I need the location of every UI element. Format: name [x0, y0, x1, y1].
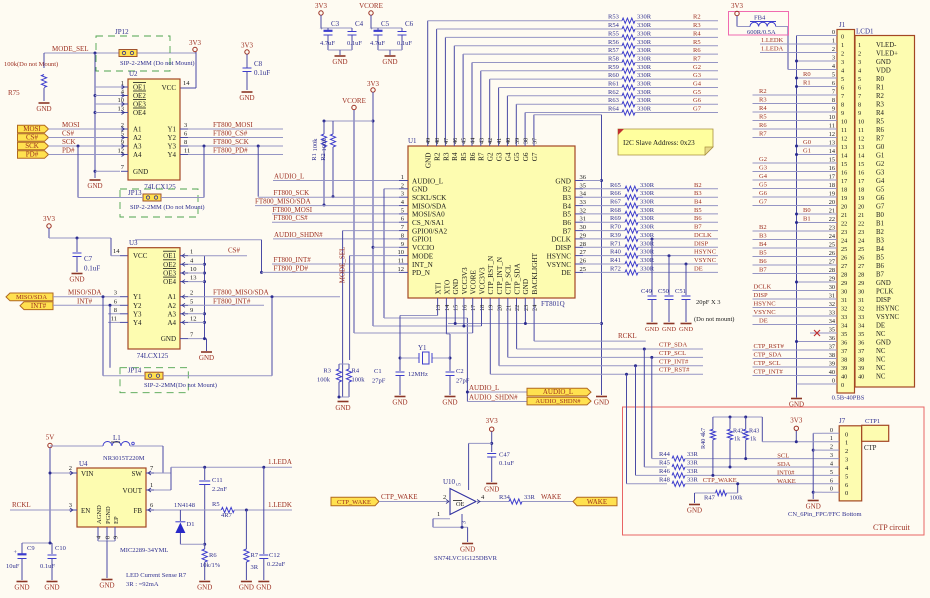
svg-text:HSYNC: HSYNC	[754, 301, 776, 308]
svg-text:R70: R70	[610, 224, 621, 231]
svg-text:R1: R1	[876, 85, 884, 92]
svg-text:36: 36	[580, 174, 587, 181]
svg-text:20: 20	[497, 305, 504, 311]
svg-text:47: 47	[443, 138, 450, 144]
svg-text:CTP_RST#: CTP_RST#	[659, 367, 690, 374]
svg-text:MODE_SEL: MODE_SEL	[52, 45, 89, 53]
svg-text:37: 37	[532, 138, 539, 144]
svg-text:SCKL/SCK: SCKL/SCK	[412, 194, 447, 202]
svg-text:MODE_SEL: MODE_SEL	[339, 247, 347, 284]
svg-text:GND: GND	[335, 404, 350, 412]
svg-text:14: 14	[841, 153, 848, 160]
svg-text:G2: G2	[693, 64, 701, 71]
svg-text:CTP_WAKE: CTP_WAKE	[703, 477, 737, 484]
svg-text:A1: A1	[133, 126, 142, 134]
svg-text:11: 11	[841, 127, 847, 134]
svg-text:OE3: OE3	[133, 101, 146, 109]
svg-text:11: 11	[858, 127, 864, 134]
svg-text:GND: GND	[14, 584, 29, 592]
svg-text:7: 7	[841, 93, 844, 100]
svg-text:27pF: 27pF	[456, 378, 470, 385]
svg-text:G6: G6	[522, 152, 530, 161]
svg-text:42: 42	[487, 138, 494, 144]
svg-text:9: 9	[121, 139, 124, 146]
svg-text:B3: B3	[876, 238, 885, 245]
svg-text:1: 1	[401, 174, 404, 181]
svg-text:330R: 330R	[637, 30, 652, 37]
svg-text:28: 28	[858, 272, 864, 279]
svg-text:AUDIO_L: AUDIO_L	[274, 173, 304, 181]
svg-text:19: 19	[488, 305, 495, 311]
svg-text:33R: 33R	[687, 460, 699, 467]
svg-text:330R: 330R	[637, 64, 652, 71]
svg-text:R4: R4	[451, 152, 459, 161]
svg-text:OE1: OE1	[163, 252, 176, 260]
svg-text:3V3: 3V3	[43, 215, 56, 223]
svg-text:6: 6	[184, 131, 188, 138]
svg-text:23: 23	[858, 229, 864, 236]
svg-text:R7: R7	[876, 136, 885, 143]
svg-text:FT800_PD#: FT800_PD#	[273, 264, 308, 272]
svg-text:2: 2	[832, 46, 835, 53]
svg-text:DISP: DISP	[694, 240, 708, 247]
svg-text:21: 21	[858, 212, 864, 219]
svg-text:33: 33	[841, 314, 847, 321]
svg-text:8: 8	[114, 307, 117, 314]
svg-text:D1: D1	[187, 521, 195, 528]
svg-text:G3: G3	[693, 72, 701, 79]
svg-text:28: 28	[580, 241, 587, 248]
svg-text:330R: 330R	[640, 240, 655, 247]
svg-text:GND: GND	[806, 503, 821, 511]
svg-text:GND: GND	[239, 584, 254, 592]
svg-text:G1: G1	[876, 153, 884, 160]
svg-text:VSYNC: VSYNC	[754, 309, 776, 316]
svg-text:EP: EP	[113, 516, 120, 524]
svg-text:8: 8	[105, 536, 112, 539]
svg-text:U1: U1	[408, 137, 417, 145]
svg-text:VOUT: VOUT	[123, 487, 143, 495]
svg-text:10: 10	[829, 114, 835, 121]
svg-text:46: 46	[452, 138, 459, 144]
svg-text:33: 33	[580, 199, 587, 206]
svg-text:330R: 330R	[640, 224, 655, 231]
svg-text:16: 16	[461, 305, 468, 311]
svg-text:NR3015T220M: NR3015T220M	[103, 455, 145, 462]
svg-text:GND: GND	[484, 486, 499, 494]
svg-text:AUDIO_SHDN#: AUDIO_SHDN#	[535, 398, 581, 405]
svg-text:6: 6	[114, 298, 118, 305]
svg-text:15: 15	[829, 157, 835, 164]
svg-text:4: 4	[830, 461, 834, 468]
svg-text:HSYNC: HSYNC	[547, 252, 572, 260]
svg-text:DCLK: DCLK	[754, 284, 772, 291]
svg-text:VCCIO: VCCIO	[412, 244, 434, 252]
svg-text:R7: R7	[693, 56, 701, 63]
svg-text:CTP_INT#: CTP_INT#	[659, 358, 689, 365]
svg-text:GND: GND	[412, 186, 428, 194]
svg-text:12: 12	[841, 136, 847, 143]
svg-text:26: 26	[580, 258, 587, 265]
svg-text:21: 21	[505, 305, 512, 311]
svg-text:6: 6	[150, 502, 154, 509]
svg-text:B5: B5	[876, 255, 885, 262]
svg-text:40: 40	[829, 369, 835, 376]
svg-text:0.1uF: 0.1uF	[40, 563, 55, 570]
svg-text:R75: R75	[8, 89, 20, 97]
svg-text:R62: R62	[608, 89, 619, 96]
svg-text:B3: B3	[563, 194, 572, 202]
svg-text:CTP_WAKE: CTP_WAKE	[381, 493, 418, 501]
svg-text:DISP: DISP	[555, 244, 571, 252]
svg-text:1k: 1k	[734, 436, 741, 443]
svg-text:21: 21	[841, 212, 847, 219]
svg-text:G4: G4	[693, 81, 702, 88]
svg-text:3: 3	[858, 59, 861, 66]
svg-text:R54: R54	[608, 22, 620, 29]
svg-text:35: 35	[580, 182, 587, 189]
svg-text:R71: R71	[610, 240, 621, 247]
svg-text:330R: 330R	[637, 47, 652, 54]
svg-text:B3: B3	[694, 190, 702, 197]
svg-text:19: 19	[841, 195, 847, 202]
svg-text:CTP_SDA: CTP_SDA	[754, 352, 782, 359]
svg-text:FT800_INT#: FT800_INT#	[273, 256, 311, 264]
svg-text:9: 9	[841, 110, 844, 117]
svg-text:14: 14	[113, 248, 120, 255]
svg-text:3: 3	[841, 59, 844, 66]
svg-text:R0: R0	[803, 71, 811, 78]
svg-text:0.5B-40PBS: 0.5B-40PBS	[832, 395, 865, 402]
svg-text:FT800_CS#: FT800_CS#	[213, 130, 248, 138]
svg-text:100k: 100k	[317, 377, 331, 384]
svg-text:24: 24	[841, 238, 848, 245]
svg-text:29: 29	[829, 276, 835, 283]
svg-text:R39: R39	[610, 232, 621, 239]
svg-text:1: 1	[832, 38, 835, 45]
svg-text:17: 17	[858, 178, 864, 185]
svg-text:11: 11	[398, 258, 404, 265]
svg-text:2: 2	[830, 444, 833, 451]
svg-text:7: 7	[858, 93, 861, 100]
svg-text:15: 15	[453, 305, 460, 311]
svg-text:G6: G6	[693, 97, 702, 104]
svg-text:2: 2	[443, 494, 446, 501]
svg-text:3R: 3R	[251, 564, 259, 571]
svg-text:G2: G2	[759, 156, 767, 163]
svg-text:FB: FB	[133, 507, 142, 515]
svg-text:25: 25	[841, 246, 847, 253]
svg-text:C3: C3	[331, 20, 340, 28]
svg-text:0: 0	[832, 29, 835, 36]
svg-text:R68: R68	[610, 207, 621, 214]
svg-text:29: 29	[841, 280, 847, 287]
svg-text:5: 5	[190, 298, 193, 305]
svg-text:OE2: OE2	[163, 261, 176, 269]
svg-text:2: 2	[401, 182, 404, 189]
svg-text:G7: G7	[876, 204, 885, 211]
svg-text:R69: R69	[610, 215, 621, 222]
svg-text:C7: C7	[84, 255, 93, 263]
svg-text:VCORE: VCORE	[342, 97, 366, 105]
svg-text:R65: R65	[610, 182, 621, 189]
svg-text:B2: B2	[759, 224, 767, 231]
svg-text:3V3: 3V3	[731, 2, 744, 10]
svg-text:24: 24	[829, 233, 836, 240]
svg-text:R6: R6	[876, 127, 885, 134]
svg-text:4R7: 4R7	[221, 512, 233, 519]
svg-text:CTP circuit: CTP circuit	[873, 523, 911, 532]
svg-text:B7: B7	[876, 272, 885, 279]
svg-text:330R: 330R	[637, 14, 652, 21]
svg-text:14: 14	[829, 148, 836, 155]
svg-text:32: 32	[858, 306, 864, 313]
svg-text:7: 7	[121, 164, 125, 171]
svg-text:2.2nF: 2.2nF	[212, 486, 227, 493]
svg-text:38: 38	[858, 357, 864, 364]
svg-text:Y3: Y3	[133, 310, 142, 318]
svg-text:9: 9	[832, 106, 835, 113]
svg-text:48: 48	[434, 138, 441, 144]
svg-text:C9: C9	[27, 545, 35, 552]
svg-text:G5: G5	[693, 89, 701, 96]
svg-text:28: 28	[829, 267, 835, 274]
svg-text:GND: GND	[452, 279, 460, 295]
svg-text:330R: 330R	[637, 56, 652, 63]
svg-text:JP12: JP12	[115, 28, 129, 36]
svg-text:+: +	[320, 27, 324, 33]
svg-text:GND: GND	[197, 584, 212, 592]
svg-text:FT800_CS#: FT800_CS#	[273, 214, 308, 222]
svg-text:30: 30	[580, 224, 587, 231]
svg-text:15: 15	[841, 161, 847, 168]
svg-text:37: 37	[829, 344, 835, 351]
svg-text:SIP-2-2MM (Do not Mount): SIP-2-2MM (Do not Mount)	[120, 60, 195, 67]
svg-text:23: 23	[829, 225, 835, 232]
svg-text:3: 3	[845, 457, 848, 464]
svg-text:A3: A3	[167, 310, 176, 318]
svg-text:3V3: 3V3	[241, 42, 254, 50]
svg-text:18: 18	[841, 187, 847, 194]
svg-text:INT#: INT#	[77, 297, 93, 305]
svg-text:330R: 330R	[640, 215, 655, 222]
svg-text:A2: A2	[133, 134, 142, 142]
svg-text:0: 0	[841, 34, 844, 41]
svg-text:39: 39	[829, 361, 835, 368]
svg-text:G7: G7	[531, 152, 539, 161]
svg-text:OE4: OE4	[133, 109, 146, 117]
svg-text:+: +	[370, 27, 374, 33]
svg-text:MISO/SDA: MISO/SDA	[16, 294, 47, 301]
svg-text:29: 29	[858, 280, 864, 287]
svg-text:Y1: Y1	[133, 293, 142, 301]
svg-text:100k: 100k	[730, 495, 744, 502]
svg-text:FT800_INT#: FT800_INT#	[213, 297, 251, 305]
svg-text:C11: C11	[212, 477, 223, 484]
svg-text:CTP_INT_N: CTP_INT_N	[496, 256, 504, 294]
svg-text:330R: 330R	[640, 265, 655, 272]
svg-text:VLED+: VLED+	[876, 51, 898, 58]
svg-text:18: 18	[858, 187, 864, 194]
svg-text:R5: R5	[759, 114, 767, 121]
svg-text:0: 0	[845, 490, 848, 497]
svg-text:C5: C5	[381, 20, 390, 28]
svg-text:SW: SW	[132, 470, 143, 478]
svg-text:1k: 1k	[750, 436, 757, 443]
svg-text:G7: G7	[759, 199, 768, 206]
svg-text:GND: GND	[392, 399, 407, 407]
svg-text:17: 17	[470, 305, 477, 311]
svg-text:VCC3V3: VCC3V3	[461, 267, 469, 295]
svg-text:9: 9	[858, 110, 861, 117]
svg-text:36: 36	[841, 340, 847, 347]
svg-text:G5: G5	[513, 152, 521, 161]
svg-text:8: 8	[832, 97, 835, 104]
svg-text:G2: G2	[487, 152, 495, 161]
svg-text:B7: B7	[694, 224, 702, 231]
svg-text:43: 43	[478, 138, 485, 144]
svg-text:1: 1	[858, 42, 861, 49]
svg-text:FT800_PD#: FT800_PD#	[213, 147, 248, 155]
svg-text:R4: R4	[352, 368, 360, 375]
svg-text:4: 4	[190, 257, 194, 264]
svg-text:4: 4	[121, 89, 125, 96]
svg-text:U3: U3	[129, 239, 138, 247]
svg-text:33R: 33R	[687, 468, 699, 475]
svg-text:PD#: PD#	[26, 151, 39, 159]
svg-text:5: 5	[121, 131, 124, 138]
svg-text:1: 1	[437, 511, 440, 518]
svg-text:GND: GND	[332, 58, 347, 66]
svg-text:5: 5	[456, 483, 463, 486]
svg-text:3V3: 3V3	[790, 417, 803, 425]
svg-text:11: 11	[111, 315, 117, 322]
svg-text:2: 2	[69, 465, 72, 472]
svg-text:OE3: OE3	[163, 270, 176, 278]
svg-text:13: 13	[829, 140, 835, 147]
svg-text:XTI: XTI	[435, 282, 443, 295]
svg-text:13: 13	[190, 275, 197, 282]
svg-text:C47: C47	[499, 452, 511, 459]
svg-text:2: 2	[190, 290, 193, 297]
svg-text:6: 6	[832, 80, 835, 87]
svg-text:RCKL: RCKL	[618, 332, 637, 340]
svg-text:GND: GND	[876, 340, 891, 347]
svg-text:C8: C8	[254, 60, 263, 68]
svg-text:CTP1: CTP1	[865, 418, 880, 425]
svg-text:B2: B2	[694, 182, 702, 189]
svg-text:2: 2	[841, 51, 844, 58]
svg-text:VCORE: VCORE	[470, 270, 478, 295]
svg-text:12: 12	[829, 131, 835, 138]
svg-text:33R: 33R	[524, 494, 536, 501]
svg-text:330R: 330R	[637, 72, 652, 79]
svg-text:8: 8	[841, 102, 844, 109]
svg-text:35: 35	[829, 327, 835, 334]
svg-text:32: 32	[841, 306, 847, 313]
svg-text:330R: 330R	[640, 182, 655, 189]
svg-text:32: 32	[580, 207, 587, 214]
svg-text:9: 9	[113, 536, 120, 539]
svg-text:GPIO1: GPIO1	[412, 236, 433, 244]
svg-text:1: 1	[845, 440, 848, 447]
svg-text:R3: R3	[876, 102, 885, 109]
svg-text:18: 18	[479, 305, 486, 311]
svg-text:27: 27	[580, 249, 587, 256]
svg-text:C10: C10	[55, 545, 66, 552]
svg-text:R1: R1	[803, 80, 811, 87]
svg-text:CTP_RST#: CTP_RST#	[754, 343, 785, 350]
svg-text:39: 39	[841, 365, 847, 372]
svg-text:44: 44	[470, 138, 477, 144]
svg-text:12: 12	[858, 136, 864, 143]
svg-text:40: 40	[841, 374, 847, 381]
svg-text:DE: DE	[876, 323, 885, 330]
svg-text:B3: B3	[759, 233, 767, 240]
svg-text:C2: C2	[456, 368, 464, 375]
svg-text:0.1uF: 0.1uF	[254, 69, 270, 77]
svg-text:G3: G3	[496, 152, 504, 161]
svg-text:23: 23	[841, 229, 847, 236]
svg-text:12: 12	[398, 266, 405, 273]
svg-text:R3: R3	[442, 152, 450, 161]
svg-text:20pF X 3: 20pF X 3	[696, 299, 721, 306]
svg-text:B1: B1	[876, 221, 884, 228]
svg-text:Y1: Y1	[418, 344, 427, 352]
svg-text:WAKE: WAKE	[587, 498, 607, 506]
svg-text:6: 6	[858, 85, 861, 92]
svg-text:AUDIO_SHDN#: AUDIO_SHDN#	[274, 231, 323, 239]
svg-text:OE2: OE2	[133, 92, 146, 100]
svg-text:XTO: XTO	[443, 280, 451, 295]
svg-text:SN74LVC1G125DBVR: SN74LVC1G125DBVR	[434, 555, 498, 562]
svg-text:3R : =92mA: 3R : =92mA	[126, 581, 159, 588]
svg-text:6: 6	[830, 477, 833, 484]
svg-text:7: 7	[150, 465, 154, 472]
svg-text:VCORE: VCORE	[359, 2, 383, 10]
svg-text:74LCX125: 74LCX125	[137, 352, 169, 360]
svg-text:(Do not mount): (Do not mount)	[694, 316, 734, 323]
svg-text:8: 8	[184, 139, 187, 146]
svg-text:5: 5	[401, 207, 404, 214]
svg-text:U4: U4	[79, 460, 88, 468]
svg-text:CTP_SDA: CTP_SDA	[659, 342, 687, 349]
svg-text:VSYNC: VSYNC	[876, 314, 900, 321]
svg-text:27: 27	[858, 263, 864, 270]
svg-text:14: 14	[858, 153, 865, 160]
svg-text:37: 37	[858, 348, 864, 355]
svg-text:NC: NC	[876, 374, 886, 381]
svg-text:MISO/SDA: MISO/SDA	[68, 289, 101, 297]
svg-text:G2: G2	[876, 161, 885, 168]
svg-text:CTP_SCL: CTP_SCL	[659, 350, 686, 357]
svg-text:330R: 330R	[637, 81, 652, 88]
svg-text:G5: G5	[876, 187, 885, 194]
svg-text:AUDIO_L: AUDIO_L	[412, 177, 443, 185]
svg-text:0.1uF: 0.1uF	[397, 40, 412, 47]
svg-text:HSYNC: HSYNC	[876, 306, 900, 313]
svg-text:12MHz: 12MHz	[408, 371, 428, 378]
svg-text:AGND: AGND	[96, 505, 103, 524]
svg-text:GND: GND	[687, 507, 702, 515]
svg-text:FT800_MOSI: FT800_MOSI	[213, 121, 253, 129]
svg-text:R40: R40	[610, 249, 621, 256]
svg-text:13: 13	[435, 305, 442, 311]
svg-text:10uF: 10uF	[6, 563, 20, 570]
svg-text:VIN: VIN	[81, 470, 93, 478]
svg-text:38: 38	[841, 357, 847, 364]
svg-text:CS#: CS#	[26, 134, 39, 142]
